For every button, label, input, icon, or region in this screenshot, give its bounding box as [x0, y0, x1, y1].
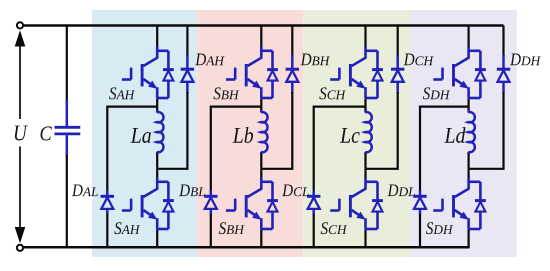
wire: top DC+ rail [20, 24, 504, 27]
label SAH [109, 87, 116, 99]
label Ld [444, 128, 454, 143]
wire: inductor Ld to lower node [468, 154, 470, 169]
wire: phase C high-side emitter to node [364, 99, 366, 107]
label DDL [387, 184, 398, 196]
inductor Ld [468, 110, 475, 155]
label DAL [72, 184, 83, 196]
IGBT SBL (low side, labelled SBH) [226, 178, 273, 229]
wire: DBH cathode to top rail [291, 26, 293, 57]
wire: inductor La to lower node [156, 154, 158, 169]
label SAH (low side) [114, 222, 121, 234]
body diode of IGBT SCH (high side) [372, 70, 383, 81]
wire: node to inductor La [156, 107, 158, 111]
wire: phase D high-side collector stub [468, 26, 470, 49]
wire: DAH anode to lower node [186, 92, 188, 170]
inductor La [157, 110, 164, 155]
wire: phase C low-side emitter to bottom rail [364, 230, 366, 247]
wire: DDL anode to bottom rail [419, 214, 421, 247]
label C [41, 126, 52, 140]
wire: phase C low-side collector stub [364, 169, 366, 179]
wire: DAH cathode to top rail [186, 26, 188, 57]
wire: phase D low-side collector stub [468, 169, 470, 179]
label DAH [195, 54, 206, 66]
wire: DCH cathode to top rail [397, 26, 399, 57]
wire: phase C lower node to DCH branch [366, 168, 398, 170]
label SBH [213, 87, 220, 99]
label DBH [301, 54, 312, 66]
inductor Lb [261, 110, 268, 155]
wire: node to inductor Lb [260, 107, 262, 111]
IGBT SCL (low side, labelled SCH) [330, 178, 377, 229]
wire: DDH cathode to top rail [502, 26, 504, 57]
label SCH (low side) [321, 222, 328, 234]
wire: inductor Lc to lower node [364, 154, 366, 169]
IGBT SCH (high side) [330, 47, 377, 98]
diode DBL [204, 191, 217, 216]
diode DAH [181, 55, 194, 93]
wire: phase D low-side emitter to bottom rail [468, 230, 470, 247]
wire: inductor Lb to lower node [260, 154, 262, 169]
capacitor C [55, 100, 81, 156]
wire: phase A low-side emitter to bottom rail [156, 230, 158, 247]
body diode of IGBT SCL (low side, labelled SCH) [372, 201, 383, 212]
wire: phase B high-side emitter to node [260, 99, 262, 107]
diode DCL [307, 191, 320, 216]
input terminal (bottom left) [17, 245, 23, 251]
wire: phase D high-side emitter to node [468, 99, 470, 107]
IGBT SBH (high side) [226, 47, 273, 98]
wire: phase A lower node to DAH branch [157, 168, 187, 170]
wire: phase A upper node to DAL branch [107, 107, 157, 192]
diode DDH [497, 55, 510, 93]
input terminal (top left) [17, 22, 23, 28]
body diode of IGBT SAL (low side, labelled SAH) [163, 201, 174, 212]
body diode of IGBT SDH (high side) [475, 70, 486, 81]
phase A band [92, 10, 197, 257]
IGBT SAL (low side, labelled SAH) [122, 178, 168, 229]
wire: phase D upper node to DDL branch [420, 107, 469, 192]
wire: phase A low-side collector stub [156, 169, 158, 179]
wire: DAL anode to bottom rail [106, 214, 108, 247]
phase D band [410, 10, 517, 257]
wire: phase D lower node to DDH branch [469, 168, 504, 170]
wire: phase B low-side emitter to bottom rail [260, 230, 262, 247]
phase C band [303, 10, 410, 257]
IGBT SAH (high side) [122, 47, 168, 98]
body diode of IGBT SDL (low side, labelled SDH) [475, 201, 486, 212]
wire: phase C high-side collector stub [364, 26, 366, 49]
label DCH [404, 54, 415, 66]
label La [131, 128, 141, 143]
diode DAL [101, 191, 114, 216]
label Lb [233, 128, 243, 143]
diode DCH [391, 55, 404, 93]
wire: DCL anode to bottom rail [313, 214, 315, 247]
body diode of IGBT SBL (low side, labelled SBH) [267, 201, 278, 212]
diode DBH [286, 55, 299, 93]
wire: node to inductor Lc [364, 107, 366, 111]
wire: phase B low-side collector stub [260, 169, 262, 179]
inductor Lc [365, 110, 372, 155]
label DDH [510, 54, 521, 66]
body diode of IGBT SAH (high side) [163, 70, 174, 81]
label SDH [423, 87, 430, 99]
wire: phase C upper node to DCL branch [314, 107, 366, 192]
IGBT SDH (high side) [433, 47, 480, 98]
body diode of IGBT SBH (high side) [267, 70, 278, 81]
diode DDL [413, 191, 426, 216]
wire: phase B lower node to DBH branch [261, 168, 292, 170]
label Lc [340, 128, 350, 143]
phase B band [197, 10, 303, 257]
wire: phase B upper node to DBL branch [211, 107, 261, 192]
label SDH (low side) [426, 222, 433, 234]
IGBT SDL (low side, labelled SDH) [433, 178, 480, 229]
wire: phase B high-side collector stub [260, 26, 262, 49]
wire: DCH anode to lower node [397, 92, 399, 170]
wire: node to inductor Ld [468, 107, 470, 111]
wire: DDH anode to lower node [502, 92, 504, 170]
label U [15, 126, 28, 141]
wire: DBL anode to bottom rail [210, 214, 212, 247]
voltage arrow U [15, 30, 26, 243]
wire: DBH anode to lower node [291, 92, 293, 170]
label SCH [319, 87, 326, 99]
wire: bottom DC- rail [20, 246, 470, 249]
label SBH (low side) [219, 222, 226, 234]
label DCL [282, 184, 293, 196]
wire: phase A high-side collector stub [156, 26, 158, 49]
label DBL [179, 184, 190, 196]
wire: capacitor bottom lead [66, 155, 68, 247]
wire: capacitor top lead [66, 26, 68, 102]
wire: phase A high-side emitter to node [156, 99, 158, 107]
